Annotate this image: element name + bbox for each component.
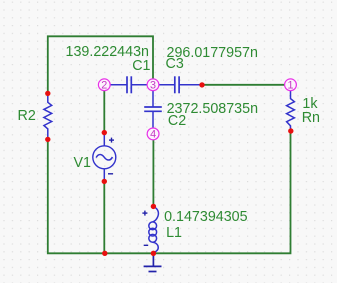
svg-text:1: 1 xyxy=(287,80,293,92)
svg-text:3: 3 xyxy=(150,80,156,92)
svg-text:4: 4 xyxy=(150,129,156,141)
svg-text:2: 2 xyxy=(101,80,107,92)
